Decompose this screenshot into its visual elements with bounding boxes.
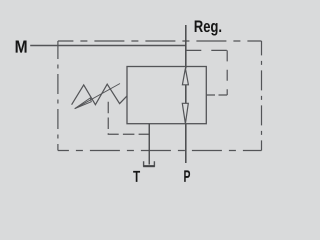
port label P (184, 170, 190, 182)
pilot line right (into valve leg) (206, 94, 227, 96)
spring (adjustable) (72, 84, 127, 105)
enclosure dashed boundary (phantom rect) (58, 41, 262, 151)
node Reg. label (195, 21, 221, 36)
pilot line right (top leg) (186, 49, 227, 51)
tank symbol (144, 161, 155, 166)
wire Reg/P vertical line (185, 25, 187, 69)
wire Reg/P vertical line (between arrows) (185, 85, 187, 104)
port label M (16, 41, 27, 53)
wire M gauge line (30, 45, 186, 47)
port label T (133, 171, 140, 182)
adjustment arrow (75, 84, 120, 109)
flow arrow down (182, 103, 188, 123)
flow arrow up (182, 68, 188, 85)
drain line left (108, 102, 149, 134)
pilot line right (vertical leg) (226, 50, 228, 95)
wire T line (148, 124, 150, 165)
valve body V1 (127, 67, 206, 124)
wire Reg/P vertical line (below box) (185, 124, 187, 163)
